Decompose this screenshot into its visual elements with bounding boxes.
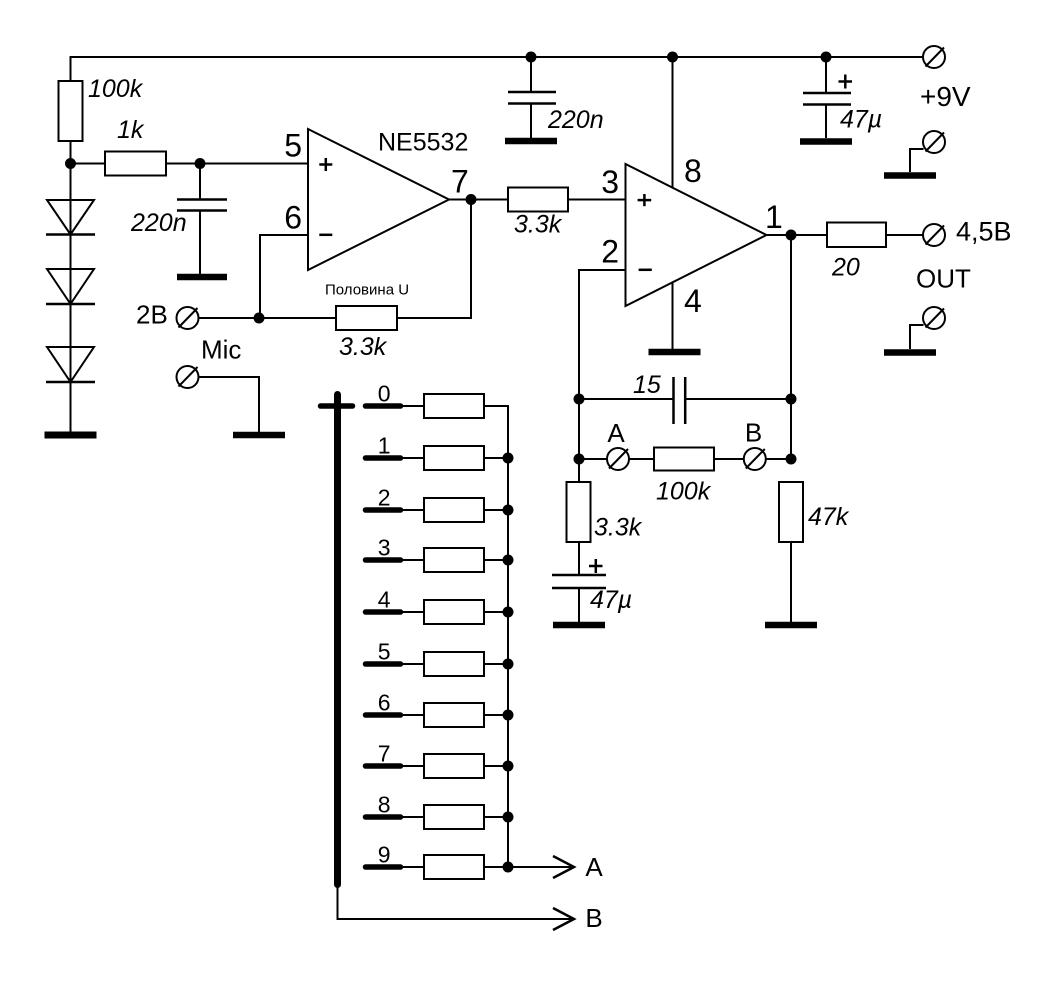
svg-text:A: A — [607, 418, 625, 448]
resistor 47k — [779, 482, 803, 542]
wire: left branch down — [578, 399, 580, 482]
resistor 100k (gain set) — [654, 448, 714, 471]
resistor (ladder 8) — [424, 805, 484, 829]
svg-text:47µ: 47µ — [590, 586, 632, 614]
wire: 47µ to ground — [825, 105, 827, 139]
svg-text:3.3k: 3.3k — [339, 333, 388, 361]
switch position 1 contact — [366, 455, 401, 461]
wire: 47k to ground — [790, 542, 792, 622]
wire: 20 to output terminal — [886, 234, 923, 236]
node: ladder junction 3 — [503, 555, 514, 566]
terminal B — [744, 448, 766, 470]
switch bus top contact bar — [321, 403, 353, 409]
resistor (ladder 5) — [424, 652, 484, 676]
wire: pin 8 to rail — [672, 57, 674, 188]
ground (47k) — [765, 622, 817, 629]
wire: contact 0 to resistor — [400, 405, 424, 407]
wire: pin 2 inverting input — [579, 270, 626, 399]
wire: contact 3 to resistor — [400, 559, 424, 561]
wire: contact 5 to resistor — [400, 663, 424, 665]
wire: 3.3k to op-amp2 pin 3 — [568, 199, 626, 201]
svg-text:7: 7 — [378, 741, 391, 767]
node: rail/47µ — [821, 52, 832, 63]
node: ladder junction 4 — [503, 607, 514, 618]
wire: contact 8 to resistor — [400, 816, 424, 818]
wire: 220n to ground — [530, 104, 532, 139]
wire: ladder resistor 3 to bus A — [484, 559, 509, 561]
node: rail/220n — [526, 52, 537, 63]
svg-text:100k: 100k — [88, 75, 144, 103]
resistor 20 (output) — [827, 223, 886, 248]
ground (Mic) — [233, 432, 285, 439]
wire: node down to 220n — [199, 164, 201, 200]
node: ladder junction 9 — [503, 862, 514, 873]
svg-text:Половина U: Половина U — [325, 282, 409, 299]
wire: output ground terminal drop — [910, 325, 924, 349]
switch position 4 contact — [366, 609, 401, 615]
node: junction 100k/1k/diodes — [65, 158, 76, 169]
wire: 47µ to ground — [578, 588, 580, 622]
svg-text:5: 5 — [378, 639, 391, 665]
wire: 3.3k to 47µ — [578, 542, 580, 575]
node: op-amp2 output — [786, 230, 797, 241]
terminal +9V — [923, 46, 945, 68]
svg-text:47k: 47k — [808, 503, 850, 531]
svg-text:8: 8 — [684, 153, 702, 189]
plus marker (47µ feedback) — [589, 559, 603, 573]
svg-text:4: 4 — [684, 283, 702, 319]
wire: ladder resistor 0 to bus A — [484, 405, 509, 407]
ground (input terminal) — [884, 172, 936, 179]
terminal ground (output side) — [923, 307, 945, 329]
svg-text:OUT: OUT — [916, 264, 971, 294]
svg-text:3: 3 — [378, 535, 391, 561]
wire: pin 6 inverting input — [260, 235, 308, 318]
capacitor 220n (input filter) — [177, 200, 227, 211]
resistor (ladder 2) — [424, 498, 484, 522]
wire: A terminal to 100k — [629, 458, 654, 460]
svg-text:3: 3 — [601, 164, 619, 200]
wire: feedback from output down — [397, 200, 471, 319]
wire: switch common to B arrow — [338, 884, 572, 919]
op-amp2 plus input marker — [638, 194, 652, 206]
svg-text:3.3k: 3.3k — [594, 514, 643, 542]
arrow B — [553, 908, 574, 930]
op-amp U1A NE5532 — [308, 129, 449, 270]
wire: feedback resistor to node — [260, 317, 336, 319]
op-amp plus input marker — [319, 158, 332, 171]
node: A row left — [574, 454, 585, 465]
resistor (ladder 6) — [424, 703, 484, 727]
node: ladder junction 7 — [503, 761, 514, 772]
ground (diode chain) — [45, 432, 97, 439]
svg-text:4: 4 — [378, 587, 391, 613]
capacitor 220n (supply decoupling) — [508, 92, 556, 104]
svg-text:100k: 100k — [656, 478, 712, 506]
wire: pin 4 to ground — [672, 283, 674, 350]
svg-text:8: 8 — [378, 792, 391, 818]
svg-text:2В: 2В — [136, 300, 168, 330]
switch position 2 contact — [366, 507, 401, 513]
wire: output down to feedback — [790, 235, 792, 459]
svg-text:2: 2 — [601, 234, 619, 270]
svg-text:220n: 220n — [130, 209, 187, 237]
wire: ladder resistor 6 to bus A — [484, 714, 509, 716]
wire: node to 1k — [71, 163, 106, 165]
node: op-amp1 output — [466, 194, 477, 205]
wire: ladder resistor 9 to bus A — [484, 866, 509, 868]
switch position 9 contact — [366, 864, 401, 870]
wire: rail to 47µ — [825, 57, 827, 93]
op-amp U1B — [626, 164, 767, 306]
node: B row right — [786, 454, 797, 465]
svg-text:1k: 1k — [117, 116, 145, 144]
capacitor 47µ (feedback) — [552, 575, 606, 588]
wire: op-amp2 output — [767, 234, 828, 236]
svg-text:B: B — [745, 418, 762, 448]
svg-text:0: 0 — [378, 381, 391, 407]
wire: diode chain vertical — [70, 164, 72, 436]
wire: 100k to B terminal — [714, 458, 744, 460]
capacitor 47µ (supply) — [803, 93, 851, 105]
wire: 15pF row left — [579, 398, 673, 400]
svg-text:3.3k: 3.3k — [514, 211, 563, 239]
resistor (ladder 3) — [424, 548, 484, 572]
terminal 2В — [177, 307, 199, 329]
switch position 3 contact — [366, 557, 401, 563]
svg-text:4,5В: 4,5В — [956, 217, 1012, 247]
diode D2 — [46, 269, 95, 304]
wire: ladder resistor 8 to bus A — [484, 816, 509, 818]
node: ladder junction 5 — [503, 659, 514, 670]
wire: ladder bus to A arrow — [508, 866, 571, 868]
wire: contact 9 to resistor — [400, 866, 424, 868]
svg-text:9: 9 — [378, 842, 391, 868]
wire: ladder resistor 1 to bus A — [484, 457, 509, 459]
resistor 3.3k (interstage) — [508, 188, 568, 212]
wire: ground terminal drop — [910, 149, 924, 172]
node: pin2/15pF left — [574, 394, 585, 405]
svg-text:47µ: 47µ — [840, 106, 882, 134]
wire: rail to 100k resistor — [70, 56, 72, 82]
switch position 7 contact — [366, 763, 401, 769]
wire: contact 2 to resistor — [400, 509, 424, 511]
resistor (ladder 1) — [424, 446, 484, 470]
switch position 5 contact — [366, 661, 401, 667]
resistor 3.3k (feedback) — [336, 306, 397, 330]
terminal 4,5В output — [923, 224, 945, 246]
wire: ladder resistor 5 to bus A — [484, 663, 509, 665]
svg-text:A: A — [585, 852, 603, 882]
resistor (ladder 9) — [424, 855, 484, 879]
ground (47µ feedback) — [553, 622, 605, 629]
ground (220n decoupling) — [505, 138, 557, 145]
resistor (ladder 4) — [424, 600, 484, 624]
wire: +9V supply rail — [71, 56, 924, 58]
wire: contact 1 to resistor — [400, 457, 424, 459]
resistor 3.3k (to ground via 47µ) — [567, 482, 591, 542]
node: ladder junction 2 — [503, 505, 514, 516]
op-amp2 minus input marker — [639, 269, 652, 272]
diode D1 — [46, 200, 95, 235]
ground (op-amp2 pin 4) — [649, 349, 701, 356]
ground (220n filter) — [177, 274, 227, 281]
wire: ladder resistor 7 to bus A — [484, 765, 509, 767]
wire: contact 4 to resistor — [400, 611, 424, 613]
wire: node to A terminal — [579, 458, 607, 460]
diode D3 — [46, 347, 95, 382]
resistor (ladder 7) — [424, 754, 484, 778]
wire: B terminal to node — [766, 458, 791, 460]
wire: Mic terminal to ground — [199, 377, 260, 432]
svg-text:+9V: +9V — [920, 81, 971, 112]
switch position 8 contact — [366, 814, 401, 820]
node: ladder junction 1 — [503, 453, 514, 464]
node: inverting input / 2V terminal — [254, 313, 265, 324]
wire: 220n to ground — [199, 211, 201, 275]
node: ladder junction 8 — [503, 812, 514, 823]
arrow A — [553, 856, 574, 878]
svg-text:5: 5 — [284, 128, 302, 164]
resistor 1k — [105, 152, 166, 176]
terminal Mic — [177, 366, 199, 388]
resistor (ladder 0) — [424, 394, 484, 418]
wire: ladder resistor 4 to bus A — [484, 611, 509, 613]
node: ladder junction 6 — [503, 710, 514, 721]
wire: contact 7 to resistor — [400, 765, 424, 767]
switch position 6 contact — [366, 712, 401, 718]
switch position 0 contact — [366, 403, 401, 409]
svg-text:20: 20 — [831, 254, 860, 282]
capacitor 15 — [674, 377, 686, 424]
svg-text:15: 15 — [633, 371, 661, 399]
svg-text:6: 6 — [284, 200, 302, 236]
resistor 100k (bias divider top) — [59, 81, 83, 141]
svg-text:NE5532: NE5532 — [378, 129, 468, 157]
wire: ladder resistor 2 to bus A — [484, 509, 509, 511]
svg-text:6: 6 — [378, 690, 391, 716]
wire: 2В terminal to node — [199, 317, 261, 319]
wire: 1k to op-amp pin 5 — [166, 163, 308, 165]
wire: ladder right bus — [507, 406, 509, 867]
svg-text:2: 2 — [378, 485, 391, 511]
svg-text:B: B — [585, 903, 602, 933]
wire: 100k to diode chain node — [70, 141, 72, 200]
svg-text:Mic: Mic — [201, 335, 241, 365]
svg-text:7: 7 — [451, 164, 469, 200]
wire: 15pF row right — [685, 398, 791, 400]
op-amp minus input marker — [319, 234, 332, 237]
switch common bus — [334, 395, 341, 885]
terminal ground (input side) — [923, 131, 945, 153]
terminal A — [607, 448, 629, 470]
svg-text:1: 1 — [765, 199, 783, 235]
svg-text:220n: 220n — [547, 106, 604, 134]
wire: op-amp1 output — [449, 199, 508, 201]
ground (47µ supply) — [800, 138, 852, 145]
node: output/15pF right — [786, 394, 797, 405]
wire: rail to 220n — [530, 57, 532, 92]
node: rail/pin8 — [667, 52, 678, 63]
svg-text:1: 1 — [378, 433, 391, 459]
ground (output terminal) — [884, 349, 936, 356]
wire: contact 6 to resistor — [400, 714, 424, 716]
plus marker (47µ supply) — [839, 75, 853, 89]
node: 1k/220n junction — [195, 158, 206, 169]
